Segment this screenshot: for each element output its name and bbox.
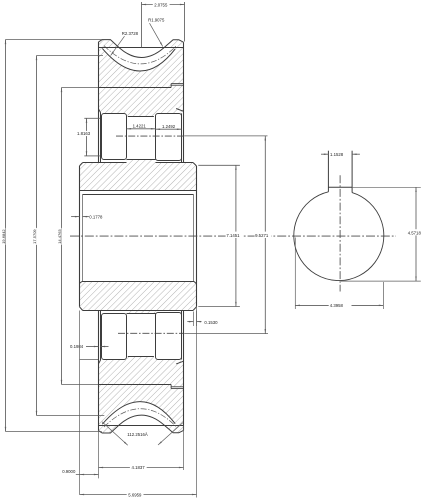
svg-text:0.1778: 0.1778 — [89, 214, 103, 219]
svg-text:1.8163: 1.8163 — [77, 131, 91, 136]
svg-text:4.3958: 4.3958 — [330, 303, 344, 308]
svg-text:7.1451: 7.1451 — [226, 233, 240, 238]
svg-text:0.1984: 0.1984 — [70, 344, 84, 349]
svg-text:R1.9075: R1.9075 — [148, 18, 165, 23]
svg-text:R2.3728: R2.3728 — [122, 31, 139, 36]
svg-text:14.4763: 14.4763 — [57, 229, 62, 244]
svg-text:0.1530: 0.1530 — [204, 320, 218, 325]
svg-text:17.5709: 17.5709 — [32, 229, 37, 244]
svg-text:2.0755: 2.0755 — [154, 2, 168, 7]
svg-text:19.6842: 19.6842 — [1, 229, 6, 244]
svg-text:1.4221: 1.4221 — [133, 123, 147, 128]
svg-text:5.6959: 5.6959 — [128, 492, 142, 497]
svg-text:112.2516Â: 112.2516Â — [127, 432, 148, 437]
svg-text:4.5718: 4.5718 — [408, 230, 422, 235]
svg-text:9.5271: 9.5271 — [255, 233, 269, 238]
svg-text:0.9000: 0.9000 — [62, 469, 76, 474]
svg-text:4.1837: 4.1837 — [132, 465, 146, 470]
svg-text:1.1528: 1.1528 — [330, 152, 344, 157]
svg-text:1.2492: 1.2492 — [162, 124, 176, 129]
